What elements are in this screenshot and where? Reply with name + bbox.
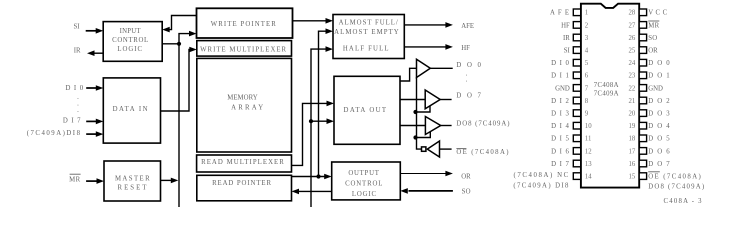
- wire V3 rail to AF/AE input2: [319, 31, 327, 176]
- box write multiplexer: [197, 41, 292, 57]
- wire read multiplexer to data out: [292, 103, 328, 165]
- wire OCL to read pointer: [298, 190, 332, 192]
- wire SO input: [409, 190, 453, 192]
- wire master reset output: [161, 179, 172, 181]
- svg-text:RESET: RESET: [118, 185, 149, 192]
- arrow DI7 into data in: [96, 119, 104, 125]
- pin 26 stub: [639, 34, 646, 41]
- wire OE input: [440, 148, 452, 150]
- arrow HF: [445, 44, 453, 50]
- arrow MR into master reset: [97, 178, 105, 184]
- svg-text:12: 12: [585, 148, 592, 155]
- box read multiplexer: [197, 155, 292, 172]
- box memory array: [197, 58, 292, 152]
- wire read pointer to OCL: [292, 176, 326, 178]
- pin 2 stub: [573, 22, 580, 29]
- svg-text:11: 11: [585, 136, 592, 143]
- node enable buffer3: [413, 135, 417, 139]
- svg-text:D O 4: D O 4: [648, 123, 671, 130]
- svg-text:.: .: [77, 107, 79, 114]
- svg-text:D I 5: D I 5: [551, 136, 570, 143]
- svg-text:(7C409A)DI8: (7C409A)DI8: [27, 130, 82, 137]
- svg-text:D O 0: D O 0: [456, 62, 482, 69]
- wire data in to write multiplexer: [161, 50, 191, 112]
- node ICL-rail junction: [177, 42, 181, 46]
- package part numbers: [594, 82, 619, 98]
- svg-text:HF: HF: [561, 22, 570, 29]
- overline MR: [70, 173, 81, 175]
- svg-text:26: 26: [629, 35, 636, 42]
- svg-text:GND: GND: [648, 85, 663, 92]
- svg-text:28: 28: [629, 10, 636, 17]
- node V2 data out branch: [309, 119, 313, 123]
- svg-text:READ MULTIPLEXER: READ MULTIPLEXER: [201, 159, 285, 166]
- arrow feedback into ICL: [162, 27, 170, 33]
- buffer DO7: [425, 90, 440, 109]
- arrow master reset to rail: [171, 178, 179, 184]
- svg-text:CONTROL: CONTROL: [112, 37, 149, 44]
- svg-text:D O 0: D O 0: [648, 60, 671, 67]
- svg-text:13: 13: [585, 161, 592, 168]
- wire enable stub buffer2: [416, 106, 431, 113]
- svg-text:ALMOST FULL/: ALMOST FULL/: [339, 19, 399, 26]
- arrow write pointer to AF/AE: [326, 18, 334, 24]
- pin 14 stub: [573, 173, 580, 180]
- svg-text:SI: SI: [564, 48, 571, 55]
- svg-text:19: 19: [629, 123, 636, 130]
- pin 27 stub: [639, 22, 646, 29]
- node enable buffer2: [413, 110, 417, 114]
- wire MR vertical rail: [179, 34, 190, 207]
- svg-text:ALMOST EMPTY: ALMOST EMPTY: [334, 29, 400, 36]
- wire data out to buffer1: [400, 68, 417, 81]
- arrow into half full: [326, 46, 334, 52]
- inverter OE: [427, 141, 439, 157]
- pin 12 stub: [573, 148, 580, 155]
- pin 16 stub: [639, 160, 646, 167]
- svg-text:D O 3: D O 3: [648, 111, 671, 118]
- svg-text:MASTER: MASTER: [115, 175, 151, 182]
- svg-text:D I 1: D I 1: [551, 73, 570, 80]
- svg-text:D O 1: D O 1: [648, 73, 671, 80]
- svg-text:MR: MR: [648, 22, 659, 29]
- svg-text:OE (7C408A): OE (7C408A): [456, 149, 510, 156]
- wire write pointer feedback to ICL: [170, 16, 197, 30]
- box data in: [103, 78, 160, 143]
- svg-text:IR: IR: [563, 35, 570, 42]
- svg-text:GND: GND: [555, 85, 570, 92]
- pin 11 stub: [573, 135, 580, 142]
- svg-text:HALF FULL: HALF FULL: [343, 46, 390, 53]
- svg-text:READ POINTER: READ POINTER: [212, 180, 272, 187]
- wire MR input: [86, 180, 97, 182]
- svg-text:D I 7: D I 7: [551, 161, 570, 168]
- svg-text:1: 1: [585, 10, 588, 17]
- wire AFE output: [404, 24, 446, 26]
- box master reset: [104, 161, 161, 201]
- svg-text:D O 6: D O 6: [648, 148, 671, 155]
- svg-text:7C408A: 7C408A: [594, 82, 619, 89]
- pin 8 stub: [573, 97, 580, 104]
- arrow OCL to read pointer: [292, 189, 300, 195]
- arrow AFE: [445, 22, 453, 28]
- wire buffer2 DO7 output: [440, 99, 451, 101]
- wire IR output: [94, 52, 103, 54]
- arrow into AF/AE input2: [326, 28, 334, 34]
- svg-text:INPUT: INPUT: [120, 28, 142, 35]
- pin 10 stub: [573, 122, 580, 129]
- wire enable stub buffer3: [416, 132, 431, 138]
- box data out: [334, 76, 400, 144]
- wire SI input: [86, 30, 97, 32]
- svg-text:HF: HF: [461, 45, 470, 52]
- svg-text:V C C: V C C: [648, 10, 667, 17]
- node V3 on OCL input: [316, 174, 320, 178]
- pin 23 stub: [639, 72, 646, 79]
- svg-text:(7C408A) NC: (7C408A) NC: [513, 172, 569, 179]
- svg-text:OE (7C408A): OE (7C408A): [648, 174, 702, 181]
- bubble OE: [422, 147, 426, 151]
- svg-text:D I 6: D I 6: [551, 148, 570, 155]
- wire OR output: [400, 173, 446, 175]
- wire DI0 input: [86, 87, 97, 89]
- svg-text:5: 5: [585, 60, 589, 67]
- pin 6 stub: [573, 72, 580, 79]
- svg-text:2: 2: [585, 22, 589, 29]
- svg-text:4: 4: [585, 48, 589, 55]
- svg-text:.: .: [466, 77, 468, 84]
- pin 9 stub: [573, 110, 580, 117]
- svg-text:LOGIC: LOGIC: [117, 46, 143, 53]
- wire V2 branch to data out: [311, 120, 328, 122]
- pin 22 stub: [639, 85, 646, 92]
- svg-text:15: 15: [629, 174, 636, 181]
- svg-text:10: 10: [585, 123, 592, 130]
- pin 3 stub: [573, 34, 580, 41]
- svg-text:21: 21: [629, 98, 636, 105]
- svg-text:C408A - 3: C408A - 3: [664, 198, 703, 205]
- svg-text:OUTPUT: OUTPUT: [348, 170, 379, 177]
- arrow DI8 into data in: [96, 131, 104, 137]
- arrow SI into ICL: [96, 28, 104, 34]
- svg-text:LOGIC: LOGIC: [352, 191, 377, 198]
- svg-text:SO: SO: [648, 35, 657, 42]
- buffer DO8: [425, 117, 440, 135]
- pin 13 stub: [573, 160, 580, 167]
- svg-text:27: 27: [629, 22, 636, 29]
- wire OE enable rail: [417, 77, 422, 149]
- box almost full almost empty half full: [333, 15, 404, 59]
- arrow SO into OCL: [400, 188, 408, 194]
- pin 20 stub: [639, 110, 646, 117]
- pin 28 stub: [639, 9, 646, 16]
- svg-text:17: 17: [629, 148, 636, 155]
- pin 21 stub: [639, 97, 646, 104]
- wire DI8 input: [86, 133, 97, 135]
- svg-text:DO8 (7C409A): DO8 (7C409A): [648, 184, 705, 191]
- svg-text:D I 7: D I 7: [63, 118, 82, 125]
- wire data out to buffer2: [400, 99, 425, 101]
- arrow DI0 into data in: [96, 85, 104, 91]
- svg-text:D I 0: D I 0: [65, 85, 84, 92]
- svg-text:MEMORY: MEMORY: [227, 94, 258, 101]
- pin 4 stub: [573, 47, 580, 54]
- svg-text:(7C409A) DI8: (7C409A) DI8: [513, 182, 569, 189]
- pin 25 stub: [639, 47, 646, 54]
- svg-text:D I 3: D I 3: [551, 111, 570, 118]
- svg-text:OR: OR: [461, 174, 471, 181]
- svg-text:DATA OUT: DATA OUT: [344, 107, 388, 114]
- pin 7 stub: [573, 85, 580, 92]
- svg-text:WRITE POINTER: WRITE POINTER: [211, 21, 277, 28]
- svg-text:22: 22: [629, 85, 636, 92]
- svg-text:OR: OR: [648, 48, 658, 55]
- svg-text:D I 2: D I 2: [551, 98, 570, 105]
- svg-text:7: 7: [585, 85, 589, 92]
- pin 18 stub: [639, 135, 646, 142]
- pin 15 stub: [639, 173, 646, 180]
- svg-text:24: 24: [629, 60, 636, 67]
- svg-text:DATA IN: DATA IN: [113, 106, 149, 113]
- svg-text:MR: MR: [69, 177, 80, 184]
- svg-text:AFE: AFE: [461, 23, 474, 30]
- dots DO column: [466, 71, 468, 84]
- pin 17 stub: [639, 148, 646, 155]
- svg-text:IR: IR: [74, 48, 81, 55]
- svg-text:ARRAY: ARRAY: [231, 105, 265, 112]
- arrow into write pointer: [189, 31, 197, 37]
- svg-text:A F E: A F E: [550, 10, 570, 17]
- wire data out to buffer3: [400, 125, 425, 127]
- wire buffer3 DO8 output: [441, 125, 452, 127]
- svg-text:6: 6: [585, 73, 589, 80]
- pin 1 stub: [573, 9, 580, 16]
- arrow into OCL: [324, 174, 332, 180]
- arrow OR: [445, 171, 453, 177]
- svg-text:23: 23: [629, 73, 636, 80]
- wire write pointer to AF/AE: [293, 20, 327, 22]
- overline OE label: [456, 148, 466, 150]
- wire ICL output to junction: [162, 43, 179, 45]
- wire HF output: [404, 46, 446, 48]
- DIP package body with notch: [581, 4, 639, 188]
- arrow into data out input2: [327, 118, 335, 124]
- pin 19 stub: [639, 122, 646, 129]
- buffer DO0: [417, 59, 431, 77]
- svg-text:SO: SO: [462, 188, 471, 195]
- svg-text:D I 0: D I 0: [551, 60, 570, 67]
- svg-text:8: 8: [585, 98, 589, 105]
- svg-text:SI: SI: [73, 23, 80, 30]
- svg-text:7C409A: 7C409A: [594, 91, 619, 98]
- svg-text:D O 7: D O 7: [456, 93, 482, 100]
- svg-text:D O 7: D O 7: [648, 161, 671, 168]
- dots DI column: [77, 94, 79, 114]
- svg-text:9: 9: [585, 111, 589, 118]
- svg-text:3: 3: [585, 35, 589, 42]
- svg-text:D O 5: D O 5: [648, 136, 671, 143]
- arrow into write multiplexer: [189, 47, 197, 53]
- svg-text:25: 25: [629, 48, 636, 55]
- svg-text:D I 4: D I 4: [551, 123, 570, 130]
- pin 5 stub: [573, 59, 580, 66]
- arrow into data out input1: [327, 101, 335, 107]
- svg-text:CONTROL: CONTROL: [345, 181, 383, 188]
- svg-text:DO8 (7C409A): DO8 (7C409A): [456, 121, 510, 128]
- svg-text:18: 18: [629, 136, 636, 143]
- box U1 input control logic: [103, 22, 162, 62]
- wire DI7 input: [86, 120, 97, 122]
- box read pointer: [197, 175, 292, 201]
- box write pointer: [197, 8, 293, 38]
- overline pin 27 MR: [648, 20, 659, 22]
- wire V2 rail to half full input: [311, 49, 327, 207]
- arrow IR out: [87, 50, 95, 56]
- box output control logic: [332, 162, 401, 200]
- svg-text:D O 2: D O 2: [648, 98, 671, 105]
- svg-text:20: 20: [629, 111, 636, 118]
- svg-text:16: 16: [629, 161, 636, 168]
- pin 24 stub: [639, 59, 646, 66]
- svg-text:WRITE MULTIPLEXER: WRITE MULTIPLEXER: [200, 46, 287, 53]
- wire buffer1 DO0 output: [430, 67, 453, 69]
- svg-text:14: 14: [585, 174, 592, 181]
- overline pin 15 OE: [648, 171, 660, 173]
